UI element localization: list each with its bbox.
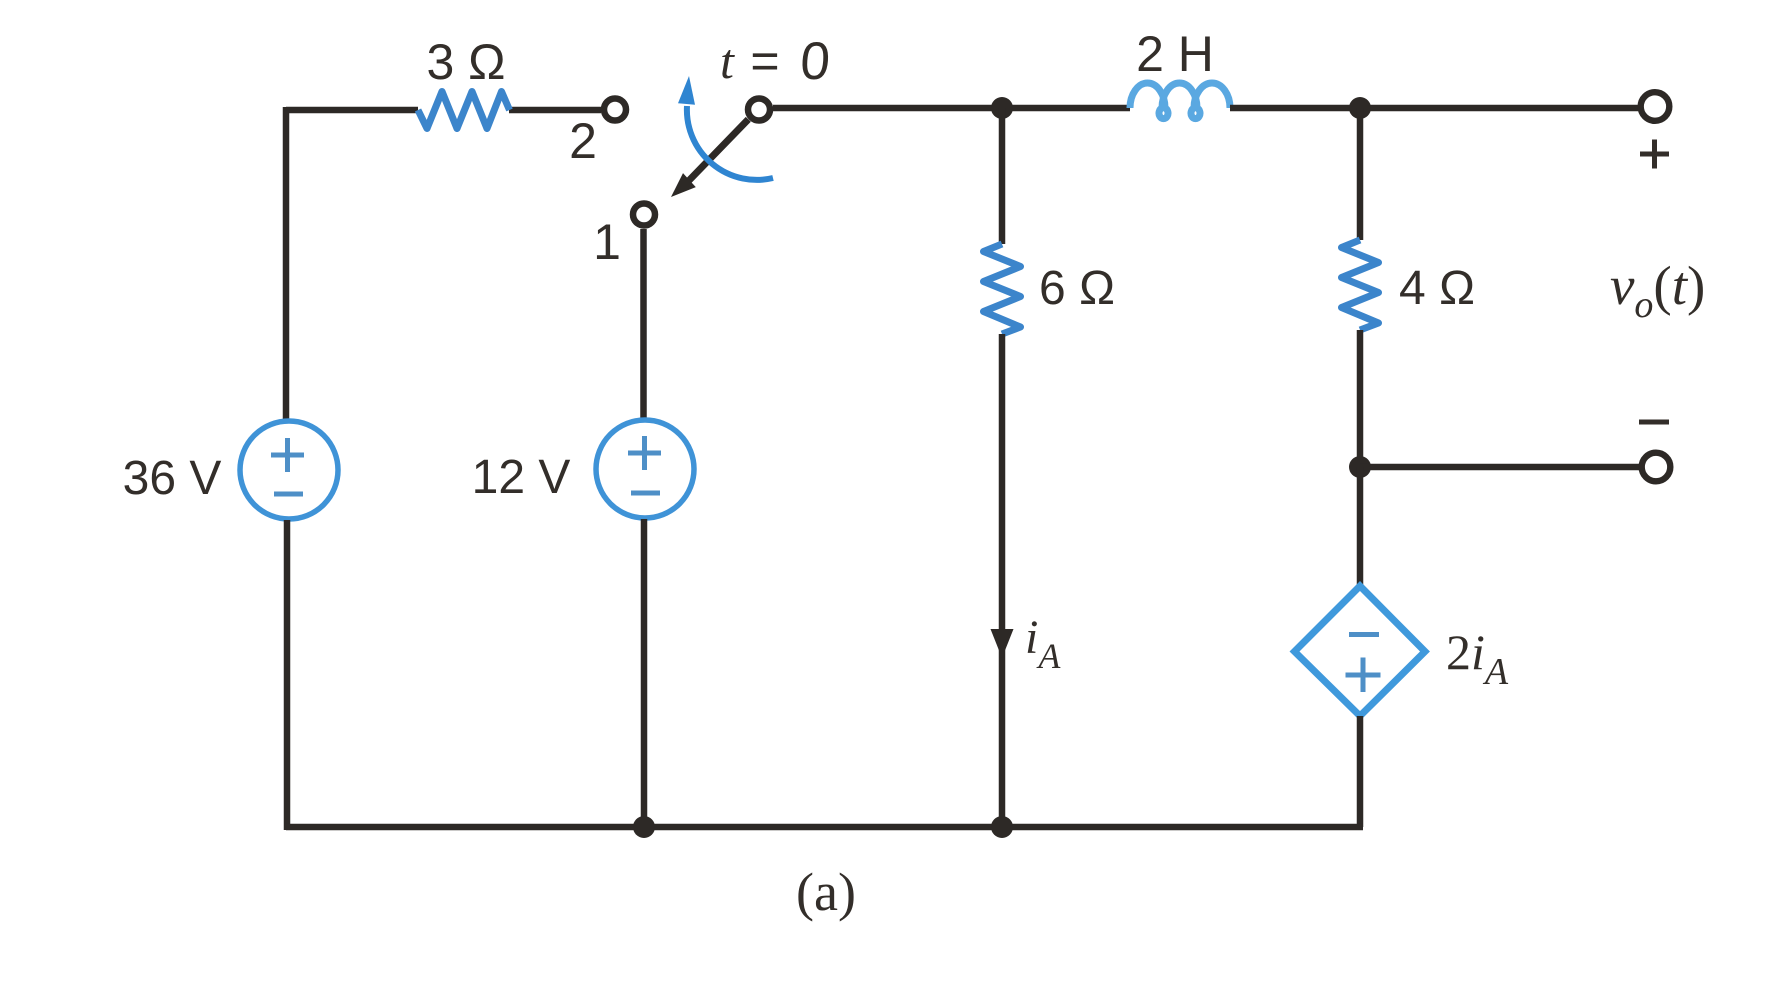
svg-text:4 Ω: 4 Ω (1399, 262, 1475, 315)
resistor 4 ohm (1342, 240, 1379, 330)
svg-text:2: 2 (569, 113, 597, 169)
output terminal minus circle (1642, 453, 1671, 482)
inductor 2 H (1130, 83, 1230, 119)
minus sign at output (1639, 420, 1669, 425)
wire mid junction down to dependent source (1357, 467, 1364, 587)
wire from 3-ohm resistor to switch terminal 2 (509, 107, 601, 114)
node junction dot mid-right (1349, 456, 1371, 478)
svg-text:36 V: 36 V (123, 452, 222, 505)
wire 6-ohm branch lower (999, 334, 1006, 827)
svg-text:0: 0 (798, 32, 832, 91)
diamond plus sign (1346, 658, 1381, 693)
blue arc arrowhead (678, 76, 695, 105)
svg-text:3 Ω: 3 Ω (426, 34, 505, 90)
diamond minus sign (1349, 632, 1379, 637)
wire dependent source down to bottom rail (1357, 716, 1364, 827)
36V minus sign (274, 492, 303, 497)
wire 6-ohm branch upper (999, 108, 1006, 244)
wire from inductor to right output terminal (1230, 105, 1641, 112)
svg-text:vo(t): vo(t) (1610, 255, 1705, 326)
current arrow iA (991, 629, 1014, 658)
wire terminal 1 down to 12V source (640, 229, 647, 421)
switch blue rotation arc (687, 106, 773, 180)
wire top-right from pivot to inductor (773, 105, 1130, 112)
node junction dot top of 6 ohm (991, 97, 1013, 119)
source 36V circle (240, 421, 338, 519)
switch pivot circle (748, 99, 770, 121)
svg-text:2 H: 2 H (1136, 26, 1214, 82)
36V plus sign (271, 438, 304, 472)
svg-text:6 Ω: 6 Ω (1039, 262, 1115, 315)
wire 12V source down to bottom rail (641, 519, 648, 827)
svg-text:t: t (720, 33, 735, 89)
node junction dot bottom of 6-ohm branch (991, 816, 1013, 838)
svg-text:=: = (750, 33, 779, 89)
node junction dot top of 4 ohm (1349, 97, 1371, 119)
12V minus sign (631, 491, 660, 496)
wire top-left horizontal from left rail to 3-ohm resistor (286, 107, 418, 114)
svg-text:(a): (a) (796, 862, 856, 922)
svg-text:12 V: 12 V (472, 451, 571, 504)
plus sign at output (1640, 140, 1669, 169)
resistor 3 ohm (418, 92, 510, 129)
switch arm arrowhead (671, 173, 696, 197)
source 12V circle (596, 420, 694, 518)
svg-text:1: 1 (593, 214, 621, 270)
switch arm (blade) (688, 119, 748, 181)
12V plus sign (628, 436, 661, 470)
output terminal plus circle (1641, 92, 1670, 121)
wire mid-right horizontal to minus terminal (1360, 464, 1641, 471)
resistor 6 ohm (984, 244, 1021, 334)
switch terminal 2 circle (604, 99, 626, 121)
switch terminal 1 circle (633, 204, 655, 226)
wire 4-ohm bottom to mid junction (1357, 330, 1364, 467)
dependent source diamond 2iA (1295, 586, 1426, 716)
wire 4-ohm branch upper (1357, 108, 1364, 240)
node junction dot bottom of 12V branch (633, 816, 655, 838)
wire left rail bottom (284, 520, 291, 830)
wire left rail top (283, 107, 290, 420)
bottom rail wire (286, 824, 1363, 831)
